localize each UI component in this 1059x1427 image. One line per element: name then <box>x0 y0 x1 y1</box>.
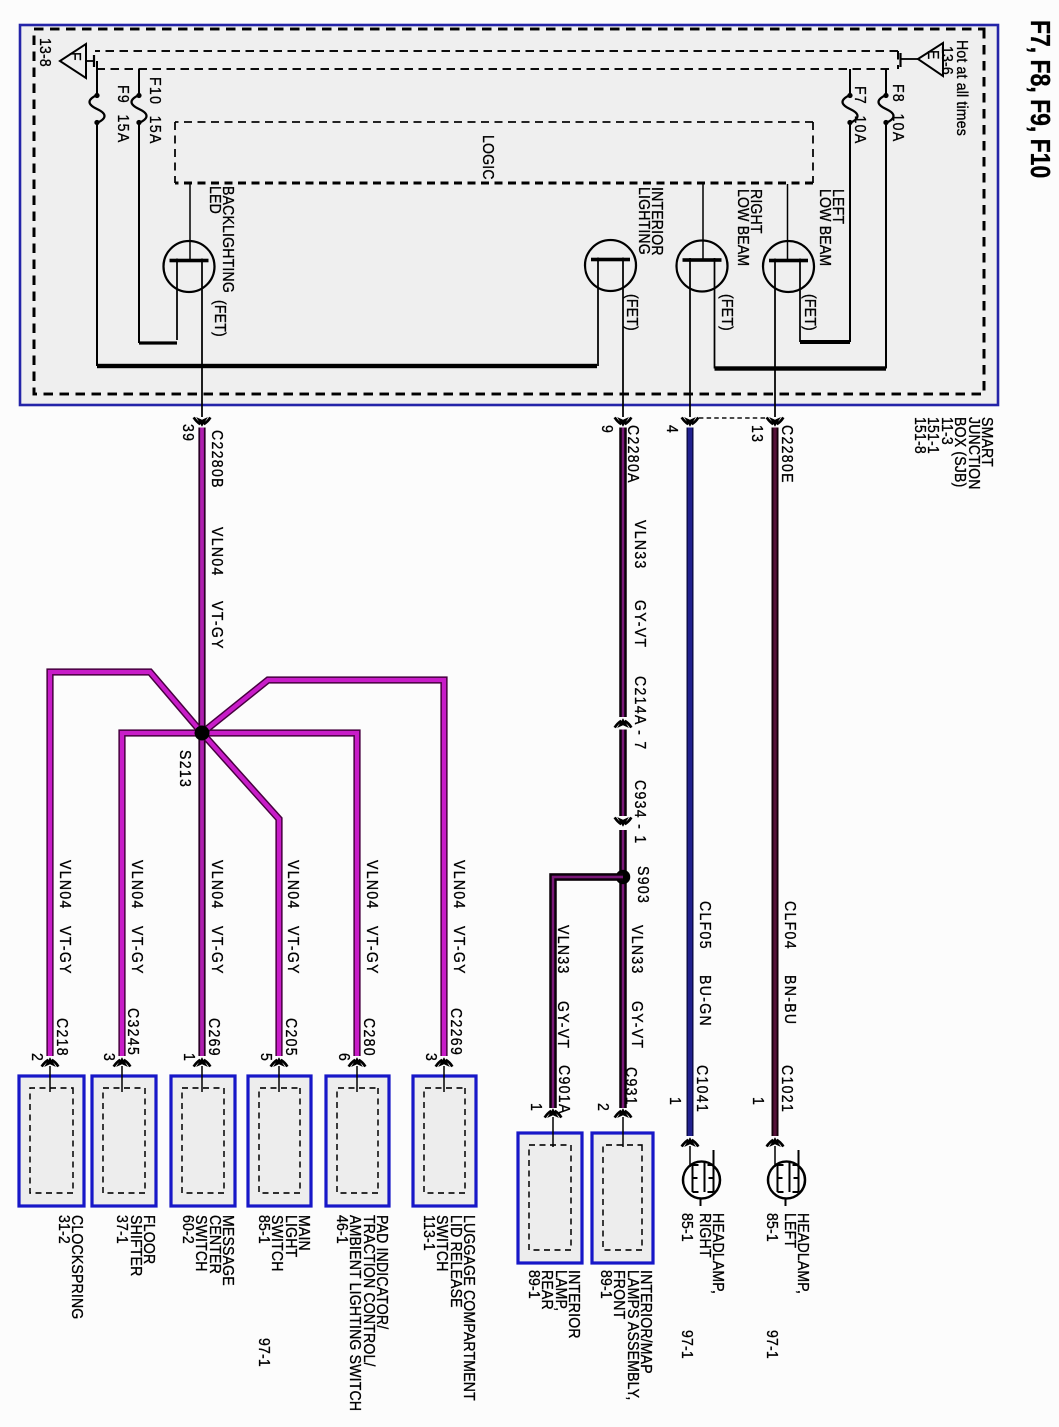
label floor shifter <box>115 1215 155 1276</box>
pin 3 C2269 <box>424 1053 437 1062</box>
label right low beam <box>735 189 762 266</box>
label main light switch <box>256 1215 310 1272</box>
wire VLN04 branch to C205 (main light switch) <box>202 733 279 1056</box>
transistor FET left low beam <box>763 241 814 292</box>
FET right low beam gate wire <box>702 184 704 260</box>
label C269 <box>207 1018 220 1057</box>
label C3245 <box>126 1008 139 1056</box>
label C214A - 7 <box>633 676 646 750</box>
FET backlighting gate wire <box>189 184 191 261</box>
lamp headlamp right <box>683 1150 720 1206</box>
label (FET) backlighting <box>213 300 226 337</box>
label CLF04 <box>783 901 796 950</box>
label VLN04 branch B <box>130 860 143 910</box>
label 13-6 <box>940 46 953 75</box>
label BN-BU <box>783 975 796 1025</box>
component box main light switch <box>248 1076 311 1206</box>
feed wire F10 to backlighting FET <box>139 341 177 344</box>
wire VLN04 branch to C218 (clockspring) <box>50 672 202 1056</box>
label VT-GY branch F <box>452 926 465 975</box>
label headlamp left <box>782 1213 809 1294</box>
wire VLN33 GY-VT branch to C901A <box>553 877 623 1108</box>
fuse F9 15A <box>90 61 105 366</box>
label F7 10A <box>853 86 866 145</box>
interior lamp rear lead wire <box>552 1117 554 1147</box>
label C931 <box>624 1067 637 1106</box>
label interior/map lamps <box>598 1270 652 1400</box>
label message center switch <box>180 1215 234 1286</box>
connector C2280E pin13 arrow <box>767 417 784 425</box>
power feed triangle F (13-8) <box>60 44 94 78</box>
label VLN04 branch C <box>210 860 223 910</box>
connector C931 arrow <box>615 1109 632 1117</box>
label LOGIC <box>481 135 494 180</box>
C205 lead wire <box>278 1066 280 1092</box>
inline connector C214A pin7 <box>615 719 632 727</box>
pin 13 <box>750 425 763 443</box>
connector C269 arrow <box>194 1058 211 1066</box>
headlamp right lead wire <box>689 1146 691 1167</box>
wire VLN04 branch to C269 (message center) <box>198 733 205 1056</box>
label VT-GY branch D <box>286 926 299 975</box>
wire VLN04 VT-GY from C2280B to splice <box>198 428 205 734</box>
dashed bus from feed F (hot at all times) <box>95 51 898 69</box>
label C934 - 1 <box>633 780 646 845</box>
C218 lead wire <box>49 1066 51 1092</box>
title F7 F8 F9 F10 <box>1034 20 1047 178</box>
label 97-1 main light <box>257 1338 270 1367</box>
label C205 <box>284 1018 297 1057</box>
smart junction box outer case <box>20 25 998 405</box>
wire VLN33 GY-VT from C934 to C931 <box>619 830 627 1108</box>
label 85-1 left <box>765 1213 778 1242</box>
label C2280E <box>780 425 793 484</box>
wire VLN33 GY-VT from C2280A to C214A <box>619 428 627 718</box>
label VLN04 branch E <box>365 860 378 910</box>
label 85-1 right <box>680 1213 693 1242</box>
label VLN33 2 <box>630 925 643 975</box>
component box clockspring <box>19 1076 84 1206</box>
label VLN33 3 <box>556 925 569 975</box>
label F8 10A <box>891 84 904 143</box>
pin 2 C931 <box>596 1103 609 1112</box>
connector C2280B pin39 arrow <box>194 417 211 425</box>
C3245 lead wire <box>121 1066 123 1092</box>
connector C3245 arrow <box>114 1058 131 1066</box>
label C2269 <box>449 1008 462 1056</box>
label F9 15A <box>116 85 129 144</box>
label VLN04 branch D <box>286 860 299 910</box>
label headlamp right <box>697 1213 724 1294</box>
pin 39 <box>181 424 194 442</box>
label pad indicator switch <box>334 1215 388 1411</box>
component box luggage compartment switch <box>413 1076 476 1206</box>
connector C2280A pin9 arrow <box>615 417 632 425</box>
transistor FET right low beam <box>677 241 728 292</box>
splice S213 <box>195 726 210 741</box>
connector (C2280E) pin4 arrow <box>682 417 699 425</box>
wire VLN04 branch to C3245 (floor shifter) <box>122 733 202 1056</box>
label VT-GY main <box>210 601 223 650</box>
wire CLF04 BN-BU <box>772 428 779 1137</box>
pin 5 C205 <box>259 1053 272 1062</box>
label E <box>926 50 939 60</box>
label 97-1 left <box>765 1330 778 1359</box>
label (FET) interior <box>625 294 638 331</box>
label BU-GN <box>698 975 711 1027</box>
pin 1 C1021 <box>751 1097 764 1106</box>
pin 1 C1041 <box>668 1097 681 1106</box>
label C2280B <box>210 430 223 489</box>
label C901A <box>557 1065 570 1115</box>
component box floor shifter <box>92 1076 156 1206</box>
label 97-1 right <box>680 1330 693 1359</box>
splice S903 <box>616 870 630 884</box>
SJB inner dashed border <box>34 29 984 394</box>
dashed link between pin4 and pin13 <box>699 417 765 419</box>
label interior lamp rear <box>526 1270 580 1339</box>
label (FET) left low beam <box>803 294 816 331</box>
pin 1 C901A <box>529 1103 542 1112</box>
C2269 lead wire <box>443 1066 445 1092</box>
fuse F8 10A <box>879 69 894 369</box>
feed wire F9 to interior-lighting FET <box>97 364 597 368</box>
FET left low beam gate wire <box>787 184 789 261</box>
label F <box>68 52 81 61</box>
wire VLN04 branch to C280 (pad indicator) <box>202 733 357 1056</box>
label VLN04 branch A <box>58 860 71 910</box>
pin 9 <box>600 425 613 434</box>
label VLN04 branch F <box>452 860 465 910</box>
label C2280A <box>626 425 639 484</box>
wire CLF05 BU-GN <box>687 428 694 1137</box>
label VLN04 main <box>210 527 223 577</box>
label VLN33 1 <box>633 520 646 570</box>
component box pad indicator switch <box>326 1076 389 1206</box>
fuse F10 15A <box>132 69 147 343</box>
label backlighting led <box>207 186 234 293</box>
transistor FET interior lighting <box>585 240 636 291</box>
inline connector C934 pin1 <box>615 817 632 825</box>
label GY-VT 2 <box>630 1001 643 1049</box>
wire VLN04 branch to C2269 (luggage) <box>202 680 444 1056</box>
pin 4 <box>665 425 678 434</box>
pin 3 C3245 <box>102 1053 115 1062</box>
pin 2 C218 <box>30 1053 43 1062</box>
pin 1 C269 <box>182 1053 195 1062</box>
power feed triangle E (13-6, hot at all times) <box>901 43 944 76</box>
FET right low beam legs <box>690 258 715 417</box>
pin 6 C280 <box>337 1053 350 1062</box>
interior/map lamps lead wire <box>622 1117 624 1147</box>
label left low beam <box>817 189 844 266</box>
label F10 15A <box>148 77 161 145</box>
label 13-8 <box>38 38 51 67</box>
label hot at all times <box>955 40 968 136</box>
label VT-GY branch B <box>130 926 143 975</box>
connector C205 arrow <box>271 1058 288 1066</box>
label C280 <box>362 1018 375 1057</box>
connector C1021 arrow <box>767 1138 784 1146</box>
component box message center switch <box>171 1076 235 1206</box>
label luggage switch <box>421 1215 475 1401</box>
label smart junction box <box>913 417 993 490</box>
component box interior/map lamps front <box>592 1133 653 1263</box>
label GY-VT 3 <box>556 1001 569 1049</box>
connector C901A arrow <box>545 1109 562 1117</box>
FET backlighting legs <box>177 259 202 418</box>
wire VLN33 GY-VT from C214A to C934 <box>619 730 627 817</box>
C280 lead wire <box>356 1066 358 1092</box>
connector C218 arrow <box>42 1058 59 1066</box>
connector C1041 arrow <box>682 1138 699 1146</box>
transistor FET backlighting LED <box>164 241 215 292</box>
connector C2269 arrow <box>436 1058 453 1066</box>
FET left low beam legs <box>775 259 800 418</box>
connector C280 arrow <box>349 1058 366 1066</box>
label VT-GY branch C <box>210 926 223 975</box>
label interior lighting <box>636 187 663 256</box>
headlamp left lead wire <box>774 1146 776 1167</box>
dashed bus feeding fuses <box>96 68 889 70</box>
LOGIC block dashed box <box>175 122 813 183</box>
label S213 <box>178 750 191 788</box>
label C1041 <box>695 1065 708 1113</box>
label GY-VT 1 <box>633 600 646 648</box>
label VT-GY branch E <box>365 926 378 975</box>
label clockspring <box>56 1215 83 1319</box>
feed wire F7 to left-low-beam FET <box>800 340 850 344</box>
feed wire F8 to right-low-beam FET <box>715 366 887 370</box>
fuse F7 10A <box>843 69 858 342</box>
label (FET) right low beam <box>720 294 733 331</box>
label C1021 <box>780 1065 793 1113</box>
component box interior lamp rear <box>518 1133 582 1263</box>
label C218 <box>55 1018 68 1057</box>
label CLF05 <box>698 901 711 950</box>
lamp headlamp left <box>768 1150 805 1206</box>
label S903 <box>636 866 649 904</box>
label VT-GY branch A <box>58 926 71 975</box>
C269 lead wire <box>201 1066 203 1092</box>
FET interior lighting legs <box>598 258 623 418</box>
